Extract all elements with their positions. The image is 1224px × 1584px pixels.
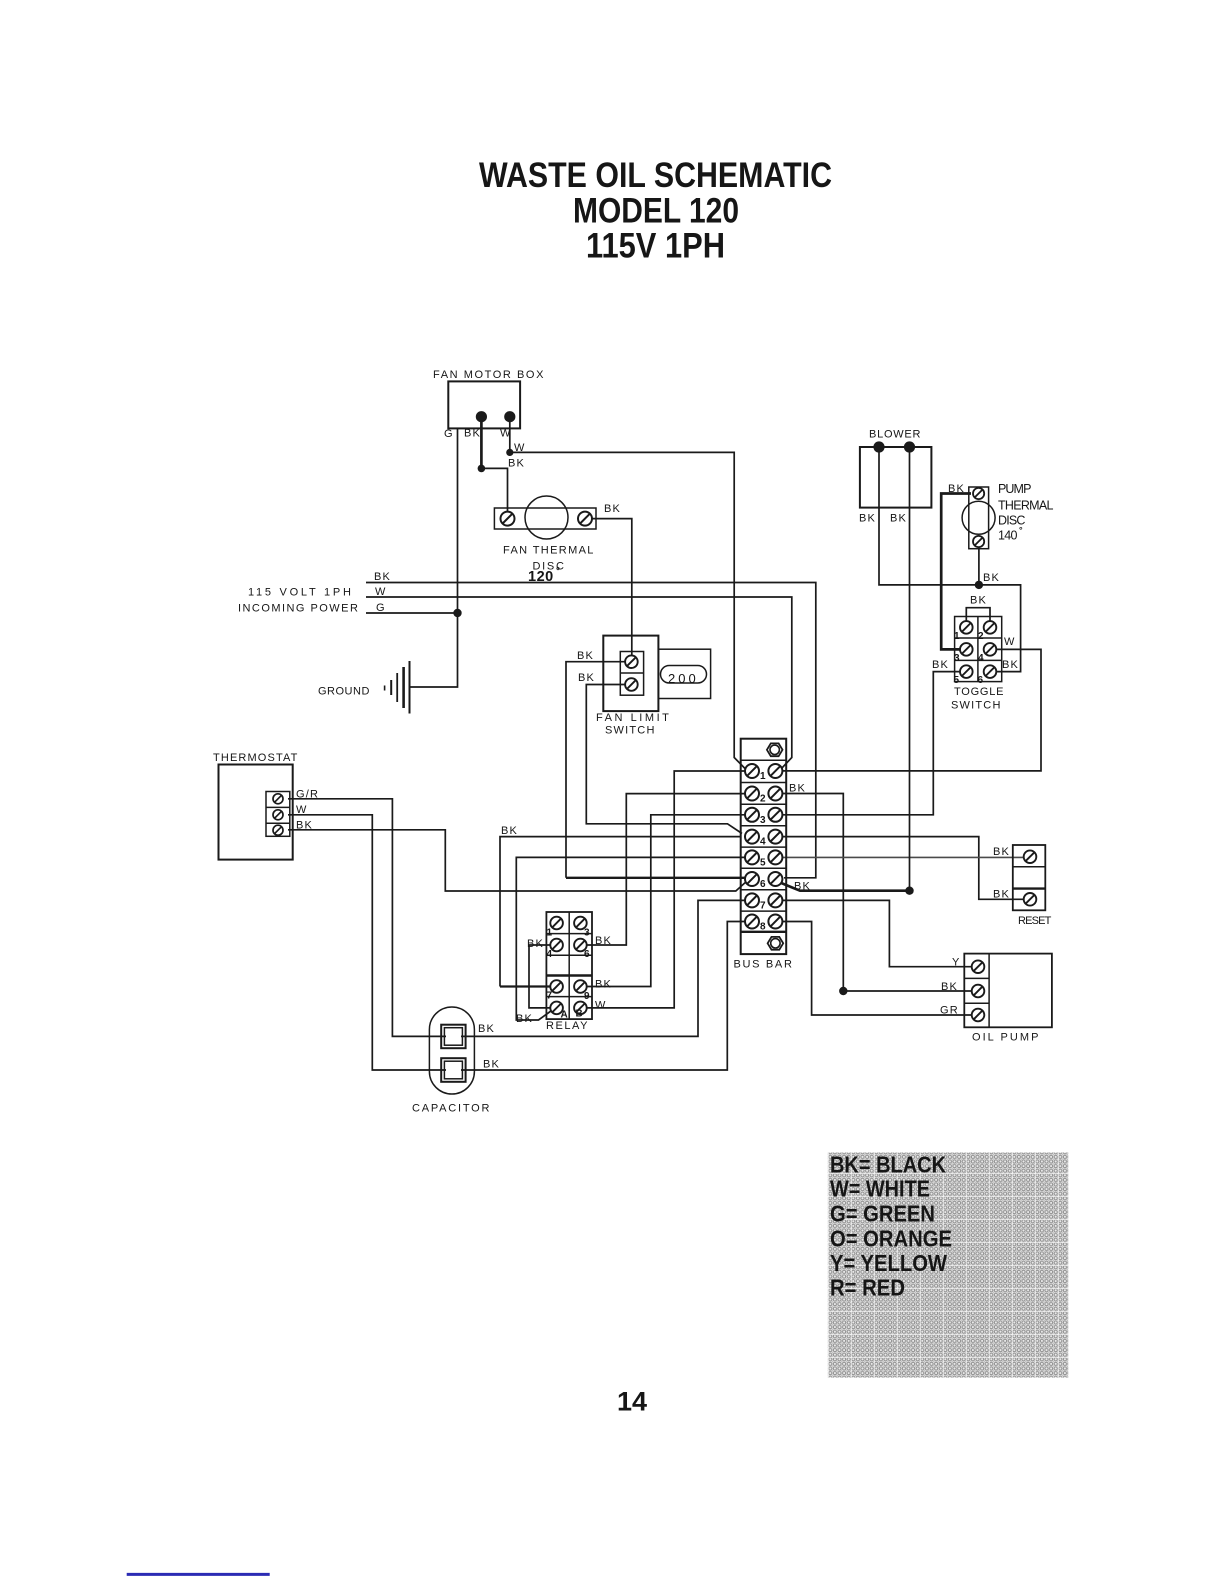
svg-text:BK: BK [794,881,811,893]
wire BK incoming power line to bus bar row 6 right [366,583,816,878]
svg-text:SWITCH: SWITCH [951,700,1003,712]
wire bus row 4 right to reset bottom screw [779,837,1027,900]
svg-text:3: 3 [584,928,590,939]
svg-text:7: 7 [547,991,553,1002]
wire toggle bracket terminals 1-2 [966,608,990,624]
svg-text:OIL PUMP: OIL PUMP [972,1032,1041,1044]
svg-text:BK: BK [859,513,876,525]
wire relay terminal 9 riser to bus row 3 left [584,815,748,987]
svg-text:BUS BAR: BUS BAR [734,959,795,971]
wire G incoming power line [366,612,458,614]
svg-text:6: 6 [978,675,984,686]
fan thermal disc [494,496,596,539]
svg-text:°: ° [1019,525,1023,535]
wire thermostat W to capacitor bottom terminal [288,815,446,1070]
svg-text:1: 1 [954,631,960,642]
svg-text:2: 2 [760,794,766,805]
svg-text:BK: BK [483,1059,500,1071]
svg-text:2: 2 [978,631,984,642]
thermostat [219,765,293,860]
svg-text:BK: BK [890,513,907,525]
wire fan limit bottom screw to bus bar row 4 left (diagonal) [586,685,742,834]
svg-text:1: 1 [760,771,766,782]
svg-text:BK: BK [789,783,806,795]
node BK fan box junction [478,465,486,473]
wire bus row 8 right to oil pump GR [779,922,975,1016]
svg-text:115 VOLT 1PH: 115 VOLT 1PH [248,587,354,599]
svg-text:BK: BK [478,1023,495,1035]
node W junction below fan box [506,449,513,456]
svg-text:BK: BK [296,820,313,832]
svg-text:4: 4 [978,653,984,664]
svg-text:W: W [595,1000,607,1012]
svg-text:BK: BK [501,825,518,837]
svg-text:W: W [1004,636,1016,648]
svg-text:BK: BK [932,659,949,671]
svg-text:3: 3 [954,653,960,664]
svg-text:200: 200 [668,671,699,686]
node G junction [453,609,461,617]
svg-text:WASTE OIL SCHEMATIC: WASTE OIL SCHEMATIC [479,156,832,195]
svg-text:Y= YELLOW: Y= YELLOW [830,1250,948,1276]
wire capacitor top terminal to bus row 7 left [461,900,748,1036]
svg-text:115V 1PH: 115V 1PH [586,227,725,266]
svg-text:O= ORANGE: O= ORANGE [830,1226,952,1252]
wire blower right lead down [909,447,911,891]
wire pump thermal disc top screw to toggle terminal 3 [941,494,971,650]
svg-text:THERMOSTAT: THERMOSTAT [213,752,300,764]
svg-text:W: W [296,804,308,816]
svg-text:°: ° [556,566,560,577]
wire G from fan motor box down to incoming G [457,429,459,613]
node junction blower right [905,887,913,895]
svg-text:G: G [444,428,454,440]
wire relay terminal B riser to bus row 1 left [584,771,748,1008]
svg-text:4: 4 [547,949,553,960]
svg-text:RESET: RESET [1018,915,1054,927]
svg-text:BK: BK [595,935,612,947]
svg-text:FAN THERMAL: FAN THERMAL [503,545,596,557]
svg-text:SWITCH: SWITCH [605,725,657,737]
wire bus row 1 right to toggle switch terminal 4 (W) [779,649,1041,771]
svg-text:PUMP: PUMP [998,482,1032,496]
svg-text:BK: BK [993,846,1010,858]
svg-text:W: W [375,586,387,598]
svg-text:INCOMING POWER: INCOMING POWER [238,603,361,615]
svg-text:6: 6 [760,879,766,890]
svg-text:BK: BK [1002,659,1019,671]
svg-text:W: W [514,442,526,454]
wire BK jog to fan thermal disc left screw [481,468,507,518]
svg-text:BK: BK [993,889,1010,901]
wire bus row 7 right to oil pump Y [779,900,975,966]
wire W incoming power line to bus bar top right tab [366,597,792,770]
svg-text:FAN MOTOR BOX: FAN MOTOR BOX [433,369,546,381]
wire BK from fan motor box [480,417,483,468]
toggle switch [955,617,1002,682]
svg-text:9: 9 [584,991,590,1002]
svg-text:120: 120 [528,569,554,585]
svg-text:BK: BK [374,571,391,583]
pump thermal disc [962,487,995,549]
wire blower left lead to toggle terminal 6 [879,447,1021,672]
svg-text:GROUND: GROUND [318,686,372,698]
blue rule bottom left [127,1573,270,1576]
svg-text:BK: BK [595,979,612,991]
svg-text:TOGGLE: TOGGLE [954,686,1006,698]
svg-text:14: 14 [617,1387,647,1417]
svg-text:BK: BK [577,650,594,662]
ground lead wire [410,613,458,687]
svg-text:RELAY: RELAY [546,1020,590,1032]
wire bus row 5 right to reset top screw [779,856,1027,858]
wire thermostat BK to bus row 6 left (diagonal) [288,830,747,891]
svg-text:140: 140 [998,529,1018,543]
legend block [828,1153,1068,1378]
svg-text:CAPACITOR: CAPACITOR [412,1103,492,1115]
svg-text:W= WHITE: W= WHITE [830,1176,930,1202]
blower [860,441,932,507]
svg-text:G: G [376,602,386,614]
svg-text:BK: BK [948,483,965,495]
svg-text:R= RED: R= RED [830,1275,905,1301]
sensor 200 box [658,649,710,698]
wire bus row 3 right to toggle switch terminal 5 [779,672,963,815]
svg-text:BK: BK [604,503,621,515]
svg-text:BK: BK [464,428,481,440]
relay [546,912,592,1019]
svg-text:8: 8 [760,922,766,933]
svg-text:3: 3 [760,815,766,826]
svg-text:5: 5 [954,675,960,686]
svg-text:W: W [500,428,512,440]
ground symbol [385,661,410,714]
svg-text:MODEL 120: MODEL 120 [573,192,739,231]
svg-text:BK: BK [970,595,987,607]
svg-text:BK: BK [983,572,1000,584]
reset [1013,845,1046,910]
oil pump [964,954,1052,1028]
node junction pump thermal disc lead [975,581,983,589]
svg-text:5: 5 [760,858,766,869]
wire bus row 5 left to relay terminal A (diagonal) [516,857,748,1020]
svg-text:B: B [576,1009,583,1020]
capacitor [429,1007,474,1094]
svg-text:THERMAL: THERMAL [998,499,1054,513]
wire relay terminal 4 to terminal A internal link [529,945,552,1008]
bus bar [741,739,787,954]
svg-text:A: A [561,1010,568,1021]
svg-text:G= GREEN: G= GREEN [830,1201,935,1227]
svg-text:4: 4 [760,837,766,848]
wire fan thermal disc right screw to fan limit switch top screw [585,519,632,662]
wire thermostat G/R to capacitor top terminal [288,799,446,1037]
svg-text:BK: BK [516,1013,533,1025]
svg-text:1: 1 [547,928,553,939]
fan motor box [448,381,520,428]
svg-text:BK: BK [941,981,958,993]
svg-text:6: 6 [584,949,590,960]
wire BK from bus row 4 left down to relay terminal 7 [500,837,741,987]
wire relay terminal 6 riser to bus row 2 left [584,794,748,945]
wire fan limit top screw to bus bar row 6 left [566,662,625,878]
svg-text:BK= BLACK: BK= BLACK [830,1152,946,1178]
node junction at oil pump BK wire [839,987,847,995]
wire W from fan motor box across to bus bar top left tab [510,417,746,770]
svg-text:BK: BK [527,938,544,950]
svg-text:BLOWER: BLOWER [869,429,923,441]
svg-text:GR: GR [940,1005,959,1017]
svg-text:7: 7 [760,901,766,912]
svg-text:BK: BK [578,672,595,684]
wire bus row 6 right diagonal to BK junction line [780,883,910,891]
svg-text:G/R: G/R [296,789,319,801]
fan limit switch [603,636,658,712]
svg-text:Y: Y [952,957,961,969]
wire bus row 2 right to oil pump BK [779,794,975,992]
wire capacitor bottom terminal to bus row 8 left [461,922,748,1071]
svg-text:FAN LIMIT: FAN LIMIT [596,712,672,724]
svg-text:BK: BK [508,458,525,470]
wire pump thermal disc bottom screw riser [978,542,980,585]
